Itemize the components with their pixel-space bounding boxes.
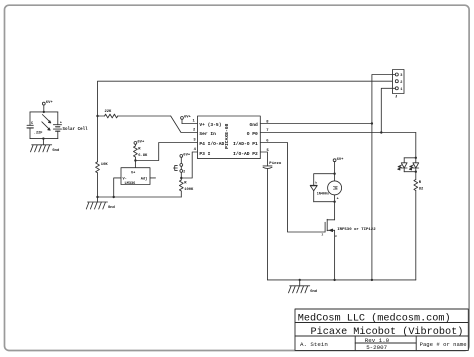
- light arrows: [42, 115, 49, 122]
- svg-text:.22F: .22F: [34, 132, 43, 136]
- diode D1 1N400x: [310, 181, 329, 202]
- wire LM336 V- to ground bus: [114, 178, 121, 197]
- svg-text:3: 3: [400, 74, 402, 78]
- title block: [295, 309, 468, 350]
- wire LM336 Adj stub: [150, 177, 156, 179]
- svg-text:LM336: LM336: [125, 182, 136, 186]
- LED D3: [409, 158, 418, 172]
- connector J1 programming header: [393, 70, 405, 100]
- capacitor C1 left leg: [29, 112, 31, 125]
- svg-text:6V+: 6V+: [184, 116, 192, 120]
- svg-text:R: R: [138, 148, 141, 152]
- node left bus junction: [96, 196, 98, 198]
- power flag 6V+ (IC pin1): [181, 116, 198, 124]
- svg-text:5-2007: 5-2007: [366, 344, 387, 351]
- node pin7 / header pin1 junction: [380, 131, 382, 133]
- node LM336 V- junction: [113, 196, 115, 198]
- resistor R4 6.8K: [134, 146, 149, 161]
- svg-text:Piezo: Piezo: [269, 161, 282, 166]
- svg-text:Page # or name: Page # or name: [420, 341, 467, 348]
- svg-text:2: 2: [400, 81, 402, 85]
- wire junction to LM336 V+: [134, 161, 136, 168]
- piezo PZ1: [263, 161, 282, 280]
- op-amp U1 PICAXE-08M: [193, 116, 270, 159]
- node LED top junction: [415, 157, 417, 159]
- LED D2: [398, 158, 407, 172]
- resistor R2 22K: [98, 110, 171, 118]
- svg-text:Adj: Adj: [141, 176, 147, 181]
- svg-text:6.8K: 6.8K: [138, 154, 148, 158]
- node gnd symbol junction: [299, 279, 301, 281]
- motor M1: [328, 174, 342, 202]
- svg-text:6V+: 6V+: [183, 154, 191, 158]
- wire diode bottom rail: [314, 201, 335, 203]
- svg-text:6V+: 6V+: [137, 141, 145, 145]
- svg-text:R: R: [184, 182, 187, 186]
- power flag 6V+ (solar cell): [42, 101, 53, 112]
- ground (left bus): [86, 197, 115, 210]
- svg-text:I/O-AD P2: I/O-AD P2: [233, 151, 258, 157]
- wire sensor to pin4: [181, 152, 197, 178]
- wire P0 to LEDs: [415, 133, 417, 158]
- solar cell SC1 with capacitor C1 .22F: [27, 111, 88, 140]
- resistor R5 100K: [179, 178, 194, 197]
- svg-text:Gnd: Gnd: [52, 148, 60, 153]
- node gnd vertical junction: [371, 279, 373, 281]
- wire 22K to Ser In pin: [171, 116, 198, 133]
- node mosfet source junction: [333, 279, 335, 281]
- svg-text:+: +: [337, 197, 339, 201]
- svg-text:2: 2: [322, 234, 324, 237]
- svg-text:10K: 10K: [101, 163, 109, 167]
- svg-text:Gnd: Gnd: [310, 289, 318, 294]
- svg-text:+: +: [60, 121, 62, 125]
- wire diode top rail: [314, 174, 335, 186]
- wire LED bottom rail: [404, 171, 416, 173]
- wire pin7 P0 net: [260, 132, 416, 134]
- svg-text:V-: V-: [123, 177, 127, 181]
- svg-text:82: 82: [419, 187, 424, 191]
- svg-text:2: 2: [193, 129, 196, 133]
- svg-text:3: 3: [193, 139, 196, 143]
- svg-text:1: 1: [400, 88, 402, 92]
- wire solar cell to ground: [42, 139, 44, 145]
- resistor R3 10K: [96, 116, 109, 197]
- svg-text:V+ (3-5): V+ (3-5): [199, 122, 221, 128]
- svg-text:1N400x: 1N400x: [317, 193, 329, 197]
- node top stub junction: [43, 111, 45, 113]
- node serial divider junction: [96, 115, 98, 117]
- wire pin8 Gnd net: [260, 123, 372, 125]
- svg-text:P4 I/O-AD: P4 I/O-AD: [199, 141, 224, 147]
- power flag 6V+ (sensor): [180, 154, 191, 164]
- svg-text:2: 2: [183, 169, 185, 173]
- wire junction to pin3: [135, 143, 197, 161]
- svg-text:I/AD-O P1: I/AD-O P1: [233, 141, 258, 147]
- svg-text:Gnd: Gnd: [108, 205, 116, 210]
- power flag 6V+ (motor): [333, 158, 344, 174]
- connector J2 sensor header: [173, 164, 185, 174]
- ground (bottom bus): [289, 280, 318, 294]
- node 6.8K / LM336 junction: [134, 159, 136, 161]
- svg-text:22K: 22K: [105, 110, 113, 114]
- svg-text:Solar Cell: Solar Cell: [63, 127, 89, 132]
- ground (solar cell): [31, 145, 60, 153]
- resistor R6 82: [414, 172, 424, 280]
- top edge of loop: [30, 111, 58, 113]
- svg-text:6V+: 6V+: [46, 101, 54, 105]
- wire header pin1 to P0 net: [381, 88, 395, 132]
- svg-text:IRF530 or TIP122: IRF530 or TIP122: [337, 227, 376, 232]
- node LED bottom junction: [415, 171, 417, 173]
- solar cell plates right leg: [57, 112, 59, 125]
- svg-text:P3 I: P3 I: [199, 151, 210, 157]
- node motor bottom junction: [333, 201, 335, 203]
- wire pin5 P2 to piezo: [260, 152, 267, 166]
- svg-text:Ser In: Ser In: [199, 131, 216, 137]
- wire header pin3 to gnd net: [372, 75, 395, 280]
- svg-text:R: R: [419, 181, 422, 185]
- bottom edge of loop: [30, 138, 58, 140]
- node sensor / 100K junction: [180, 177, 182, 179]
- svg-text:Picaxe Micobot (Vibrobot): Picaxe Micobot (Vibrobot): [311, 326, 464, 338]
- svg-text:V+: V+: [131, 171, 135, 175]
- svg-text:100K: 100K: [184, 188, 194, 192]
- svg-text:b: b: [315, 181, 317, 185]
- svg-text:A. Stein: A. Stein: [300, 341, 328, 348]
- transistor Q1 IRF530: [322, 202, 377, 280]
- svg-text:PICAXE-08: PICAXE-08: [224, 123, 230, 149]
- svg-text:6V+: 6V+: [337, 158, 345, 162]
- voltage ref U2 LM336: [121, 168, 150, 186]
- svg-text:1: 1: [193, 119, 196, 123]
- wire LED top rail: [404, 157, 416, 159]
- wire serial rail (top): [98, 81, 396, 116]
- wire bottom ground bus: [268, 279, 416, 281]
- node motor top junction: [333, 173, 335, 175]
- node pin8 / gnd vertical junction: [371, 122, 373, 124]
- svg-text:O P0: O P0: [247, 131, 258, 137]
- svg-text:3: 3: [335, 235, 337, 238]
- wire pin6 P1 to gate: [260, 143, 325, 233]
- power flag 6V+ (LM336): [134, 141, 145, 147]
- svg-text:Gnd: Gnd: [250, 122, 259, 128]
- svg-text:MedCosm LLC (medcosm.com): MedCosm LLC (medcosm.com): [298, 312, 451, 324]
- wire ground bus (left): [98, 196, 182, 198]
- svg-text:M: M: [331, 186, 338, 190]
- node bottom stub junction: [42, 137, 44, 139]
- svg-text:J: J: [395, 95, 397, 99]
